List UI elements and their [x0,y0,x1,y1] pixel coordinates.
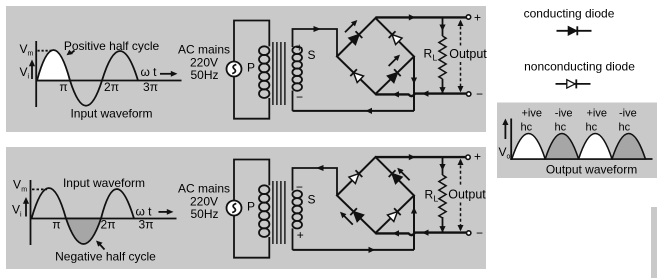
svg-text:P: P [247,61,255,75]
conducting diode symbol [557,26,592,35]
x axis [36,80,181,82]
svg-text:+: + [297,228,304,242]
second positive hump outline [102,51,138,81]
minus rail wire with hop (bottom circuit) [376,233,467,236]
resistor RL branch top wire [442,17,444,36]
diode D6 conducting (top-right) [389,170,402,183]
arrow on secondary top wire (right) [314,26,322,32]
svg-text:L: L [434,194,439,204]
svg-text:+ive: +ive [522,108,543,120]
diode D8 nonconducting (bottom-right) [388,208,401,221]
svg-text:R: R [424,47,433,61]
negative hump filled gray [66,219,101,245]
current arrow near D1 [345,20,357,32]
nonconducting diode symbol [556,79,591,88]
wire arrow right on feed [369,247,376,253]
panel output waveform [497,103,657,179]
svg-text:+: + [474,11,481,25]
Vm dashed [32,188,47,190]
svg-text:−: − [476,226,483,240]
diode D5 nonconducting (top-left) [349,170,362,183]
x axis [31,218,177,220]
svg-text:2π: 2π [104,80,119,94]
secondary top wire to bridge [293,29,338,57]
svg-text:R: R [425,188,434,202]
current arrow near D4 [389,55,400,66]
svg-text:50Hz: 50Hz [190,207,218,221]
hump 2 gray -ive hc [545,134,578,160]
svg-text:3π: 3π [143,80,158,94]
svg-text:nonconducting diode: nonconducting diode [524,60,635,74]
svg-text:conducting diode: conducting diode [524,7,615,21]
omega-t arrow [160,73,173,75]
svg-text:π: π [52,218,60,232]
minus terminal [467,231,471,235]
wire arrow left on minus rail 2 [422,91,429,97]
minus terminal [467,92,471,96]
svg-text:hc: hc [619,122,631,134]
svg-text:AC mains: AC mains [178,43,230,57]
hump 4 gray -ive hc [612,134,645,160]
wire arrow up on rise [411,207,417,214]
diode D2 nonconducting (top-right) [389,31,402,44]
svg-text:−: − [476,87,483,101]
wire arrow left on return [366,108,373,114]
primary coil [259,185,269,194]
y axis [35,41,37,107]
diode D7 conducting (bottom-left) [350,208,363,221]
positive half cycle hump (white) [37,50,70,81]
bridge diamond wires [337,157,414,233]
panel bottom circuit [6,147,486,269]
panel top circuit [6,6,486,132]
svg-text:V: V [20,65,28,79]
svg-text:Negative half cycle: Negative half cycle [55,250,156,264]
svg-text:ω t: ω t [135,205,152,219]
resistor RL zigzag (bottom circuit) [439,175,446,218]
AC sine symbol [232,64,236,73]
svg-text:Output: Output [448,188,486,202]
svg-text:+: + [474,150,481,164]
svg-text:S: S [308,193,316,207]
secondary coil [292,46,302,54]
output dashed line [460,21,462,46]
secondary return wire [293,110,415,112]
wire arrow left on minus rail 2 [422,230,429,236]
resistor RL zigzag [439,36,446,79]
svg-text:−: − [296,90,303,104]
core lines [272,42,274,105]
+ terminal [466,15,470,19]
svg-text:hc: hc [521,122,533,134]
output y axis [510,119,512,161]
right vertex rise wire [413,196,415,250]
svg-text:AC mains: AC mains [178,182,230,196]
second positive hump outline [101,189,134,219]
core lines [272,181,274,244]
Vm dashed peak line [38,50,53,52]
svg-text:V: V [20,42,28,56]
top + rail wire (bottom circuit) [376,156,467,158]
resistor RL branch top wire (bottom circuit) [442,157,444,175]
secondary bottom wire stub [292,228,294,250]
svg-text:o: o [507,154,511,161]
wire arrow left on minus rail 1 [393,230,400,236]
label arrow to negative hump [99,244,105,250]
gray strip bottom right [651,207,657,278]
wire arrow right on + rail [409,14,416,20]
right vertex drop wire [413,57,415,111]
y axis [30,180,32,245]
svg-text:50Hz: 50Hz [190,68,218,82]
first hump outline [32,188,67,219]
svg-text:Output: Output [449,47,487,61]
svg-text:3π: 3π [139,218,154,232]
primary loop wires [234,160,269,201]
minus rail wire with hop [376,94,467,97]
svg-text:m: m [21,187,27,194]
svg-text:hc: hc [555,122,567,134]
AC source circle [227,201,242,216]
svg-text:-ive: -ive [619,108,637,120]
secondary coil [292,191,302,199]
label arrow to positive hump [70,51,75,55]
diode D3 nonconducting (bottom-left) [350,69,363,82]
Vi arrow [31,64,33,79]
diode D1 conducting (top-left) [349,31,362,44]
current arrow near D7 [340,212,353,225]
hump 3 white +ive hc [579,134,612,160]
secondary top wire to bridge [293,168,338,196]
wire arrow right on + rail [409,154,416,160]
Vo up arrow [502,119,508,140]
svg-text:π: π [59,80,67,94]
resistor RL bottom wire (bottom circuit) [442,217,444,233]
AC sine symbol [232,203,236,212]
svg-text:L: L [433,53,438,63]
svg-text:Input waveform: Input waveform [70,107,152,121]
svg-text:2π: 2π [101,218,116,232]
Vi arrow [25,202,27,217]
omega-t arrow [159,211,169,213]
+ terminal [466,155,470,159]
svg-text:-ive: -ive [555,108,573,120]
svg-text:S: S [308,48,316,62]
resistor RL bottom wire [442,79,444,94]
current arrow near D6 [397,168,409,180]
wire arrow left on minus rail 1 [393,91,400,97]
svg-text:Positive half cycle: Positive half cycle [64,39,160,53]
output x axis [510,158,652,160]
svg-text:P: P [247,200,255,214]
wire arrow down on drop [411,78,417,85]
secondary bottom wire stub [292,91,294,111]
AC source circle [227,62,242,77]
diode D4 conducting (bottom-right) [388,69,401,82]
secondary feed wire [293,249,415,251]
svg-text:V: V [499,145,507,159]
bridge diamond wires [337,18,414,94]
svg-text:Output waveform: Output waveform [546,163,637,177]
primary loop wires [234,21,269,62]
svg-text:hc: hc [586,122,598,134]
primary coil [259,46,269,55]
svg-text:V: V [13,178,21,192]
svg-text:V: V [12,203,20,217]
hump labels [521,108,637,134]
output dashed line (bottom circuit) [460,160,462,186]
svg-text:m: m [28,51,34,58]
hump 1 white +ive hc [512,134,545,160]
svg-text:Input waveform: Input waveform [63,176,145,190]
top + rail wire [376,16,467,18]
svg-text:+ive: +ive [587,108,608,120]
arrow on secondary top wire (left) [316,165,324,171]
negative hump outline [70,81,102,106]
svg-text:ω t: ω t [140,65,157,79]
